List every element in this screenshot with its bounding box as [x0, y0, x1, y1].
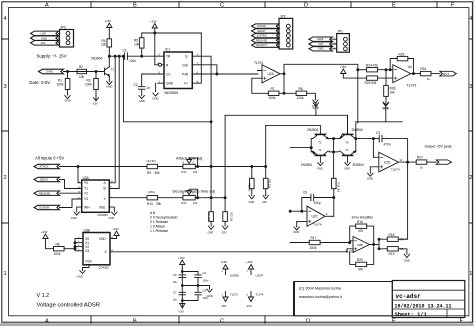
junction integrator drop at U2C [289, 210, 291, 212]
+15V power arrow above R4 [107, 23, 112, 28]
T2 base drive line from bias network [266, 125, 321, 134]
svg-text:2N3906: 2N3906 [301, 163, 312, 167]
wire feedback node up to U2A output [283, 64, 285, 93]
supply +15V input arrow [31, 31, 59, 36]
wire T2 collector down [310, 139, 312, 148]
svg-text:2N3906: 2N3906 [352, 128, 363, 132]
svg-text:massimo.ischia@yahoo.it: massimo.ischia@yahoo.it [299, 295, 343, 299]
svg-text:Y1: Y1 [84, 187, 88, 191]
svg-text:Y3: Y3 [84, 197, 88, 201]
svg-text:4: 4 [469, 16, 472, 22]
svg-text:THR: THR [182, 73, 189, 77]
svg-text:GND: GND [249, 200, 255, 204]
junction T5 collector C3 node [355, 138, 357, 140]
wire T3 upper left leg [334, 151, 338, 153]
-15V arrow below R3 [93, 95, 98, 101]
wire U2A out down to R24 [358, 69, 367, 71]
release CV input arrow [34, 191, 60, 195]
trimmer R12 wiper arrow [187, 158, 198, 167]
svg-text:10k: 10k [390, 91, 396, 95]
svg-text:B: B [133, 319, 137, 325]
svg-text:2N3904: 2N3904 [307, 128, 318, 132]
svg-text:TR: TR [166, 55, 171, 59]
transistor T6 2n3906 left of quad [347, 155, 349, 157]
wire R27 to output arrow [427, 161, 437, 163]
op-amp U2D triangle [379, 152, 399, 172]
junction center at cascode [333, 151, 335, 153]
wire R19 to ground [379, 249, 407, 254]
junction U2D out [407, 161, 409, 163]
svg-text:47k: 47k [400, 237, 405, 241]
wire C3 right to U2D out node [382, 139, 408, 163]
title block sheet cell divider [446, 309, 448, 318]
svg-text:+15V: +15V [178, 256, 185, 260]
trimmer R12 body [183, 164, 195, 168]
transistor T3 legs [339, 151, 356, 155]
attack pot input arrow [252, 24, 279, 28]
U2B polarity marks [354, 241, 356, 250]
svg-text:TL071: TL071 [230, 292, 238, 296]
+15V power arrow above 555 [152, 24, 157, 34]
svg-text:+15V: +15V [340, 65, 347, 69]
svg-text:470n: 470n [384, 143, 391, 147]
svg-text:U2UP: U2UP [256, 273, 264, 277]
resistor R14 body vertical [332, 178, 337, 188]
ground decoupling [207, 289, 212, 292]
wire R22 to -15V [224, 221, 226, 226]
svg-text:100k: 100k [297, 96, 304, 100]
svg-text:R11 2k2: R11 2k2 [207, 213, 209, 222]
frame left row ticks [2, 39, 9, 223]
wire C1 to R5 junction to IC1 TR [127, 55, 157, 57]
junction R24 left node [357, 69, 359, 71]
svg-text:NE555N: NE555N [165, 91, 179, 95]
svg-text:X3: X3 [85, 249, 89, 253]
svg-text:100k: 100k [310, 246, 317, 250]
wire R11 to ground [210, 221, 212, 226]
JP3 pin numbers [57, 32, 59, 43]
capacitor C2 on CV [138, 74, 157, 96]
wire R31 to OUT arrow [431, 73, 440, 75]
resistor R25 body [367, 76, 378, 80]
wire sustain to Y3 [60, 199, 82, 208]
svg-text:C4: C4 [203, 271, 207, 275]
resistor R10 body [147, 196, 158, 200]
resistor R5 body [139, 38, 144, 48]
svg-text:GND: GND [293, 230, 299, 234]
svg-text:VSS: VSS [85, 260, 91, 264]
svg-text:39k: 39k [155, 171, 161, 175]
svg-text:A B: A B [150, 211, 156, 215]
svg-text:-15V: -15V [40, 41, 46, 45]
svg-text:V+: V+ [184, 82, 188, 86]
junction +15V rail at arrow [154, 32, 156, 34]
wire decay to Y1 [60, 180, 82, 189]
svg-text:GND: GND [139, 99, 145, 103]
wire U3A B select up [109, 56, 119, 188]
title block row dividers [392, 290, 465, 309]
wire R7 to R8 junction [279, 92, 296, 94]
ground below U2D [368, 173, 373, 176]
svg-text:0 1 Release: 0 1 Release [150, 220, 168, 224]
supply GND input arrow [31, 36, 59, 41]
svg-text:RELEASE: RELEASE [256, 39, 267, 42]
transistor T4 2N3906 base bar [315, 154, 325, 156]
decay pot input arrow [252, 29, 279, 33]
frame right row ticks [469, 39, 473, 223]
legend flag +15V U2UP [248, 265, 253, 275]
svg-text:JP3: JP3 [60, 26, 66, 30]
svg-text:GND: GND [318, 48, 324, 51]
svg-text:CD4052: CD4052 [99, 265, 110, 269]
svg-text:10k: 10k [134, 42, 140, 46]
wire C3 line from T5 collector [356, 138, 379, 140]
op-amp U4 TL071 triangle [393, 65, 411, 83]
resistor R6 body [54, 247, 65, 251]
wire collector node to integrator [290, 147, 311, 149]
svg-text:GND: GND [208, 231, 214, 235]
svg-text:TL074: TL074 [313, 222, 322, 226]
svg-text:Output +5V peak: Output +5V peak [425, 144, 452, 148]
wire attack line to R9 [60, 166, 148, 168]
svg-text:(44.5k): (44.5k) [147, 159, 156, 163]
wire R6 to X pins column [64, 248, 75, 250]
wire output node down to error amp R18 [400, 162, 408, 239]
wire branch to C4 C5 [182, 272, 198, 301]
svg-text:R12: R12 [182, 170, 187, 174]
wire release to Y2 [60, 192, 82, 194]
supply -15V input arrow [31, 41, 59, 46]
resistor R20 body below U2B [356, 262, 367, 266]
svg-text:LM358: LM358 [230, 273, 239, 277]
env output arrow [436, 160, 451, 164]
svg-text:R27: R27 [417, 156, 423, 160]
svg-text:10u: 10u [173, 280, 178, 284]
svg-text:10k: 10k [79, 75, 85, 79]
ground below U3B [80, 271, 85, 274]
wire +15V to R25 [343, 77, 366, 79]
decoupling rail +15V arrow [180, 260, 185, 269]
svg-text:F: F [451, 3, 455, 9]
svg-text:100n: 100n [203, 278, 209, 282]
ground below R19 [404, 254, 409, 257]
transistor T2 2N3904 base bar [315, 133, 325, 135]
svg-text:GND: GND [77, 274, 83, 278]
svg-text:R2: R2 [79, 65, 83, 69]
svg-text:100k: 100k [85, 83, 92, 87]
resistor R8 body [296, 91, 307, 95]
svg-text:VDD: VDD [99, 237, 106, 241]
ground below T1 [107, 82, 112, 85]
svg-text:GND: GND [71, 216, 77, 220]
svg-text:100k: 100k [269, 96, 276, 100]
svg-text:DECAY: DECAY [40, 179, 48, 182]
junction U4 out [413, 73, 415, 75]
gate input arrow [39, 69, 64, 74]
svg-text:R10: R10 [147, 202, 153, 206]
svg-text:Error Amplifier: Error Amplifier [352, 216, 374, 220]
resistor R26 feedback body [397, 56, 408, 60]
wire gate drive route v3 [123, 56, 211, 122]
svg-text:+15V: +15V [150, 19, 157, 23]
svg-text:+15V: +15V [40, 32, 46, 36]
resistor R19 body [387, 247, 398, 251]
ground below R1 [65, 96, 70, 99]
capacitor C7 [179, 292, 186, 295]
svg-text:-15V: -15V [262, 200, 268, 204]
wire X output long line to error amp [110, 251, 347, 253]
resistor R16 feedback body [356, 224, 367, 228]
svg-text:39k: 39k [156, 202, 162, 206]
svg-text:R21 10k: R21 10k [268, 179, 271, 189]
svg-text:-15V: -15V [246, 304, 252, 308]
wire R4 top to +15V arrow [108, 28, 110, 57]
svg-text:+15V: +15V [246, 260, 253, 264]
svg-text:10k: 10k [193, 170, 198, 174]
capacitor C1 body [125, 53, 128, 60]
svg-text:C6: C6 [173, 273, 177, 277]
transistor T4 legs [311, 151, 329, 154]
wire R5 bottom to TR line [141, 48, 143, 56]
junction U4 -in [389, 69, 391, 71]
wire attack tap down to Y0 [78, 167, 82, 183]
junction Q drop at decay line [210, 197, 212, 199]
wire mux X line up to U2B +in [347, 249, 353, 252]
wire X inputs tie column [75, 239, 83, 251]
junction R13 out [197, 197, 199, 199]
junction R5-TR [141, 55, 143, 57]
svg-text:INH: INH [84, 205, 90, 209]
svg-text:R16: R16 [357, 220, 363, 224]
U3A INH stub to ground [77, 207, 82, 212]
sustain pot input arrow [252, 33, 279, 37]
svg-text:C8: C8 [303, 191, 307, 195]
wire T2 T5 emitters to center [329, 138, 339, 140]
svg-text:RELEASE: RELEASE [39, 192, 50, 195]
svg-text:VEE: VEE [99, 205, 105, 209]
ground below C2 [139, 96, 144, 99]
svg-text:U3B: U3B [84, 228, 90, 232]
svg-text:Sheet: 1/1: Sheet: 1/1 [395, 312, 427, 318]
svg-text:22k: 22k [101, 43, 107, 47]
legend flag TL074 -15V [248, 292, 253, 302]
svg-text:R22 10k: R22 10k [230, 213, 232, 222]
resistor R4 body [107, 39, 112, 47]
svg-text:2: 2 [4, 175, 7, 181]
svg-text:B: B [104, 187, 106, 191]
svg-text:GND: GND [109, 216, 115, 220]
svg-text:TL074: TL074 [391, 168, 400, 172]
svg-text:R17: R17 [311, 236, 317, 240]
svg-text:TL074: TL074 [346, 250, 355, 254]
junction B net at TR line [118, 55, 120, 57]
svg-text:(47k): (47k) [148, 190, 155, 194]
connector JP2 box [279, 18, 293, 49]
wire R8 to ground [307, 93, 316, 100]
labels JP2 arrows [256, 25, 268, 47]
svg-text:GND: GND [166, 82, 174, 86]
svg-text:Y0: Y0 [84, 181, 88, 185]
wire U2B output [370, 244, 380, 246]
svg-text:GND: GND [152, 96, 158, 100]
wire R13 to decay junction [195, 197, 225, 199]
svg-text:R14 3k3: R14 3k3 [336, 183, 340, 193]
gate jack input arrow [309, 37, 332, 41]
wire U2C output stub [325, 215, 334, 217]
wire R25 to U4 +in [378, 77, 393, 79]
svg-text:47k: 47k [358, 229, 364, 233]
wire R5 top to +15V rail [142, 33, 202, 38]
svg-text:R9: R9 [147, 171, 151, 175]
svg-text:TL071: TL071 [407, 84, 417, 88]
svg-text:TL074: TL074 [254, 61, 263, 65]
wire R17 left from integrator drop [290, 242, 309, 244]
legend flag TL071 -15V [223, 292, 228, 302]
wire U3B VSS stub ground [83, 265, 90, 271]
ground below R11 [208, 226, 213, 229]
svg-text:+15V: +15V [221, 260, 228, 264]
svg-text:OUT: OUT [443, 72, 449, 76]
junction R19 left [378, 248, 380, 250]
frame top column ticks [91, 2, 437, 8]
svg-text:GND: GND [41, 36, 47, 40]
U2A input polarity marks [264, 71, 266, 80]
wire THR to comparator U2A [199, 73, 258, 75]
junction divider node [385, 69, 387, 71]
svg-text:OUT: OUT [319, 43, 325, 46]
resistor R17 body [309, 240, 320, 244]
transistor T3 2N3904 base bar [343, 154, 353, 156]
+15V arrow left of R6 [43, 234, 48, 245]
svg-text:C2: C2 [134, 83, 138, 87]
svg-text:JP1: JP1 [337, 30, 343, 34]
wire bias drive down through attack line to R21 [265, 125, 267, 195]
svg-text:U4: U4 [408, 65, 412, 69]
release pot input arrow [252, 38, 279, 42]
svg-text:(C) 2004 Massimo Ischia: (C) 2004 Massimo Ischia [299, 286, 342, 290]
wire Q output to switch drive [199, 56, 211, 212]
svg-text:U3A: U3A [83, 176, 90, 180]
svg-text:2: 2 [469, 175, 472, 181]
svg-text:R15 1M: R15 1M [247, 183, 250, 191]
svg-text:Gate: 0-5V: Gate: 0-5V [29, 80, 50, 85]
svg-text:GND: GND [106, 85, 112, 89]
ground below R28 [383, 102, 388, 105]
svg-text:U2A: U2A [268, 72, 275, 76]
wire V+ drop to pin 8 [198, 33, 202, 83]
ground below VEE [112, 212, 117, 215]
labels JP1 arrows [317, 38, 324, 51]
junction R17 right [349, 242, 351, 244]
svg-text:C: C [193, 161, 195, 164]
junction A net at TR line [114, 55, 116, 57]
svg-text:1: 1 [469, 271, 472, 277]
IC1 pin stubs left [158, 56, 164, 83]
svg-text:U2C: U2C [312, 215, 319, 219]
svg-text:T1: T1 [111, 68, 115, 72]
svg-text:VELOCITY: VELOCITY [256, 44, 268, 47]
ground below T3 [345, 163, 350, 166]
svg-text:ATTACK: ATTACK [40, 166, 49, 169]
IC1 pin numbers [157, 54, 198, 84]
svg-text:19/02/2010 13.24.11: 19/02/2010 13.24.11 [395, 304, 452, 310]
wire +15V to R6 [46, 245, 54, 249]
ground flag on right line [383, 103, 388, 122]
wire U2C -in from JP2 drop [290, 210, 307, 212]
gnd jack arrow [309, 47, 332, 51]
resistor R9 body [147, 164, 158, 168]
svg-text:C7: C7 [173, 290, 177, 294]
wire R16 feedback loop [350, 226, 374, 244]
screen edge shading right [473, 0, 474, 326]
JP1 pin circles [344, 37, 348, 41]
ground at IC1 GND pin [153, 83, 158, 96]
svg-text:V 1.2: V 1.2 [37, 293, 50, 299]
U4 polarity marks [394, 70, 396, 80]
capacitor C4 [195, 275, 202, 278]
svg-text:R24 47k: R24 47k [366, 63, 378, 67]
title comment box thick left edge [293, 282, 295, 316]
svg-text:+15V: +15V [41, 230, 48, 234]
connector JP3 box [60, 30, 74, 48]
svg-text:Attack time adj: Attack time adj [176, 155, 202, 160]
ground label R15 [264, 194, 266, 196]
decoupling vertical rail [181, 269, 183, 309]
capacitor C8 feedback [302, 194, 334, 211]
svg-text:100p: 100p [314, 201, 321, 205]
svg-text:E: E [392, 3, 396, 9]
svg-text:Supply: +/- 15V: Supply: +/- 15V [37, 54, 67, 59]
ground below U2C +in [294, 227, 299, 230]
svg-text:CD4052: CD4052 [98, 213, 109, 217]
wire R1 top [67, 72, 69, 96]
svg-text:1: 1 [4, 271, 7, 277]
wire U4 output to R31 [411, 73, 421, 75]
sustain CV input arrow [34, 205, 60, 209]
attack CV input arrow [34, 164, 60, 168]
JP1 pin numbers [334, 38, 336, 50]
svg-text:-15V: -15V [221, 231, 227, 235]
junction T1 collector node [108, 55, 110, 57]
svg-text:A: A [45, 319, 49, 325]
junction DIS-THR [216, 73, 218, 75]
junction gate route at Q drop [210, 121, 212, 123]
wire T1 emitter to ground [108, 76, 110, 81]
svg-text:1n: 1n [147, 86, 151, 90]
U3B pin numbers [78, 237, 114, 252]
svg-text:D: D [306, 319, 310, 325]
connector JP3 pin stubs [59, 33, 60, 42]
transistor T5 legs [339, 135, 356, 138]
resistor R7 body [268, 91, 279, 95]
wire R20 loop [350, 247, 374, 265]
wire R10 to trimmer R13 [158, 197, 183, 199]
svg-text:GND: GND [382, 106, 388, 110]
decay CV input arrow [34, 177, 60, 181]
wire attack line into R15 [251, 167, 253, 196]
junction U2A output [283, 73, 285, 75]
svg-text:GND: GND [404, 258, 410, 262]
svg-text:C: C [220, 3, 224, 9]
svg-text:GND: GND [344, 166, 350, 170]
resistor R2 body [77, 69, 87, 73]
svg-text:GATE: GATE [317, 38, 324, 41]
wire U2D -in to ground [370, 167, 379, 173]
svg-text:-15V: -15V [221, 304, 227, 308]
wire U2C +in to ground [297, 221, 307, 227]
svg-text:vc-adsr: vc-adsr [396, 293, 422, 300]
mux U3A body [82, 180, 110, 212]
